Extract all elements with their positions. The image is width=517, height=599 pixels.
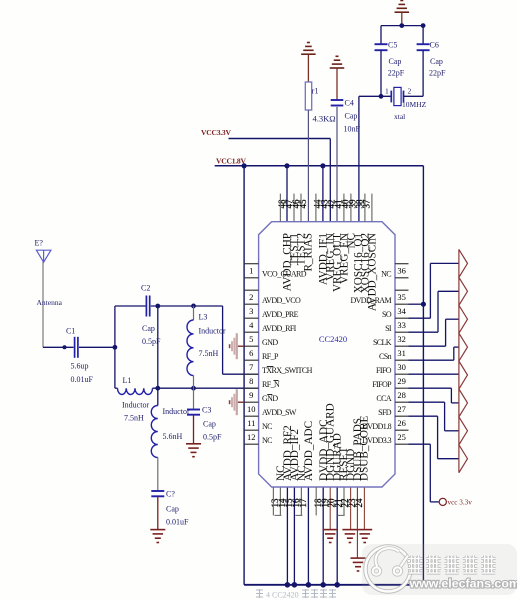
svg-text:22pF: 22pF [388,69,405,78]
svg-text:Antenna: Antenna [37,298,63,307]
svg-text:5.6up: 5.6up [71,362,89,371]
svg-text:NC: NC [262,436,272,445]
svg-text:SO: SO [382,310,392,319]
svg-text:22pF: 22pF [429,69,446,78]
svg-text:Cap: Cap [203,420,216,429]
svg-text:29: 29 [397,376,406,386]
svg-text:0.5pF: 0.5pF [142,337,161,346]
svg-text:4: 4 [249,320,254,330]
svg-text:7.5nH: 7.5nH [199,349,219,358]
svg-text:25: 25 [397,432,406,442]
svg-text:C2: C2 [141,284,150,293]
svg-text:C?: C? [166,490,175,499]
svg-text:10MHZ: 10MHZ [402,100,427,109]
svg-text:C1: C1 [66,327,75,336]
svg-text:AVDD_XOSCIN: AVDD_XOSCIN [367,233,379,311]
svg-text:3: 3 [249,306,253,316]
svg-text:26: 26 [397,418,406,428]
svg-text:24: 24 [354,498,364,508]
svg-text:27: 27 [397,404,406,414]
svg-text:C5: C5 [388,41,397,50]
svg-text:34: 34 [397,306,406,316]
svg-text:AVDD_RFI: AVDD_RFI [262,324,297,333]
svg-text:AVDD_SW: AVDD_SW [262,408,297,417]
svg-text:SCLK: SCLK [373,338,392,347]
svg-text:0.01uF: 0.01uF [166,518,189,527]
svg-text:7: 7 [249,362,253,372]
svg-text:33: 33 [397,320,406,330]
svg-text:www.elecfans.com: www.elecfans.com [409,577,517,591]
svg-text:GND: GND [262,338,278,347]
svg-text:L3: L3 [199,313,208,322]
svg-text:Inductor: Inductor [163,407,190,416]
svg-text:AVDD_PRE: AVDD_PRE [262,310,299,319]
svg-text:DSUB_CORE: DSUB_CORE [359,416,371,481]
svg-text:45: 45 [298,199,308,209]
svg-text:17: 17 [298,498,308,508]
svg-text:SI: SI [385,324,392,333]
svg-text:AVDD_VCO: AVDD_VCO [262,296,301,305]
svg-text:5.6nH: 5.6nH [163,432,183,441]
svg-text:C4: C4 [345,99,354,108]
svg-text:1: 1 [385,87,389,96]
svg-text:0.5pF: 0.5pF [203,433,222,442]
svg-text:36: 36 [397,265,406,275]
svg-text:0.01uF: 0.01uF [71,375,94,384]
svg-text:Inductor: Inductor [199,327,226,336]
svg-text:RF_N: RF_N [262,380,280,389]
svg-text:AVDD_ADC: AVDD_ADC [303,421,315,481]
svg-text:1: 1 [249,265,253,275]
svg-text:CSn: CSn [379,352,392,361]
svg-text:28: 28 [397,390,406,400]
svg-text:R_RIAS: R_RIAS [303,233,315,272]
svg-text:FIFO: FIFO [376,366,392,375]
svg-text:4 CC2420: 4 CC2420 [266,591,299,599]
svg-text:30: 30 [397,362,406,372]
svg-text:Cap: Cap [430,57,443,66]
svg-text:7.5nH: 7.5nH [124,414,144,423]
svg-text:CC2420: CC2420 [319,334,347,344]
svg-text:5: 5 [249,334,253,344]
svg-text:2: 2 [249,292,253,302]
svg-text:vcc 3.3v: vcc 3.3v [448,499,473,507]
svg-text:VCC1.8V: VCC1.8V [216,157,246,166]
svg-text:Cap: Cap [389,57,402,66]
svg-text:Inductor: Inductor [122,401,149,410]
svg-text:35: 35 [397,292,406,302]
svg-text:37: 37 [362,199,372,209]
svg-text:31: 31 [397,348,406,358]
svg-text:2: 2 [408,87,412,96]
svg-text:xtal: xtal [394,112,405,121]
svg-text:r1: r1 [312,87,319,96]
svg-text:TXRX_SWITCH: TXRX_SWITCH [262,366,313,375]
svg-text:32: 32 [397,334,406,344]
svg-text:8: 8 [249,376,253,386]
svg-text:11: 11 [247,418,255,428]
svg-text:FIFOP: FIFOP [372,380,392,389]
svg-text:9: 9 [249,390,253,400]
svg-text:NC: NC [381,270,391,279]
svg-text:Cap: Cap [142,324,155,333]
svg-text:C6: C6 [430,41,439,50]
svg-text:C3: C3 [202,406,211,415]
svg-text:10: 10 [247,404,256,414]
svg-text:Cap: Cap [166,505,179,514]
svg-text:10nF: 10nF [344,125,361,134]
svg-text:VCC3.3V: VCC3.3V [201,128,231,137]
svg-text:NC: NC [262,422,272,431]
svg-text:SFD: SFD [378,408,392,417]
svg-text:CCA: CCA [376,394,391,403]
svg-text:Cap: Cap [345,112,358,121]
svg-text:E?: E? [35,239,44,248]
svg-text:RF_P: RF_P [262,352,279,361]
svg-text:GND: GND [262,394,278,403]
svg-text:L1: L1 [123,376,132,385]
svg-text:4.3KΩ: 4.3KΩ [313,114,336,124]
svg-text:12: 12 [247,432,256,442]
svg-text:6: 6 [249,348,253,358]
